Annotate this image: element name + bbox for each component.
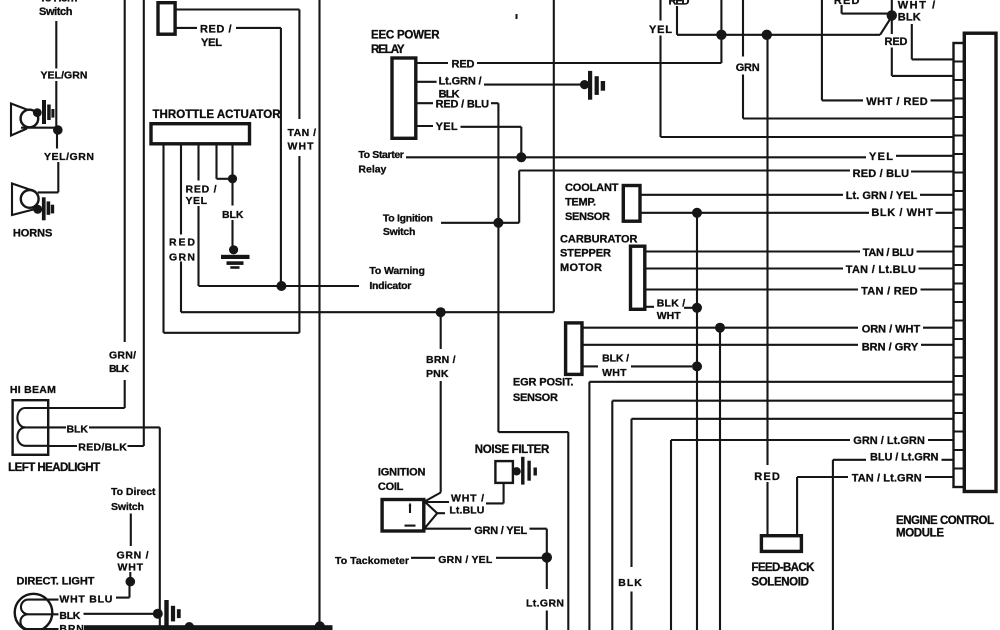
junction: relay YEL joins starter wire — [516, 152, 526, 162]
svg-text:Relay: Relay — [358, 163, 386, 175]
wire: To Starter Relay to ECM YEL pin — [406, 156, 954, 158]
wire: stepper lead 3 to ECM TAN/RED — [645, 288, 954, 290]
label: To Starter Relay — [358, 149, 404, 175]
wire: direct light BLK to ground — [84, 613, 154, 615]
wire: EGR lead 2 to ECM BRN/GRY — [582, 344, 954, 346]
svg-text:Switch: Switch — [111, 501, 144, 513]
junction: RED bus node 2 (solenoid feed) — [762, 30, 772, 40]
svg-text:LEFT HEADLIGHT: LEFT HEADLIGHT — [8, 462, 100, 474]
svg-text:YEL: YEL — [869, 151, 893, 163]
wire: stepper lead 1 to ECM TAN/BLU — [645, 250, 954, 252]
label: EEC POWER RELAY — [371, 29, 440, 56]
svg-text:BRN / GRY: BRN / GRY — [862, 342, 919, 354]
svg-text:WHT / RED: WHT / RED — [866, 96, 928, 108]
wire: actuator pin3 RED/YEL (down, right to warning indicator) — [199, 144, 360, 286]
wire: relay RED/BLU lead (down x=498.4, right, down x=568.3 to bottom) — [416, 103, 569, 630]
label: WHT / BLK — [898, 0, 936, 24]
wire: WHT/BLK lead to ECM pin 1 — [912, 24, 954, 59]
wire: relay YEL lead (down to starter wire) — [416, 126, 522, 155]
wire: RED feed to feedback solenoid (x=767.5) — [766, 35, 768, 536]
svg-text:Switch: Switch — [383, 226, 416, 238]
component: feed-back solenoid body — [761, 536, 801, 552]
wire: TAN/Lt.GRN from ECM down x=797.1 to solenoid — [797, 477, 953, 536]
left headlight symbol — [13, 400, 66, 455]
component: ignition coil body — [382, 500, 424, 532]
label: COOLANT TEMP. SENSOR — [565, 182, 619, 223]
ground: relay ground (dot + bars) — [580, 71, 605, 100]
wire: HI BEAM feed vertical GRN/BLK (x=124.7) — [48, 0, 125, 408]
svg-text:BLK / WHT: BLK / WHT — [871, 207, 933, 219]
wire: relay RED lead (right to top node) — [416, 35, 722, 63]
wire: headlight BLK to ground (x=159.8) — [89, 427, 160, 626]
label: TAN / WHT — [288, 127, 317, 153]
svg-text:COOLANT: COOLANT — [565, 182, 619, 194]
wire: BRN/PNK drop to ignition coil — [426, 312, 441, 501]
label: BLK / WHT (stepper) — [657, 297, 686, 321]
svg-text:BLK: BLK — [618, 577, 642, 589]
svg-text:YEL/GRN: YEL/GRN — [44, 151, 94, 163]
label: RED / YEL (top box) — [200, 23, 232, 49]
svg-text:Lt.GRN: Lt.GRN — [526, 598, 564, 610]
wire: stepper lead 2 to ECM TAN/Lt.BLU — [645, 267, 954, 269]
ground: direct light ground (dot + bars) — [153, 600, 181, 627]
label: To Ignition Switch — [383, 212, 433, 238]
wire: RED bus to solenoid tap — [721, 34, 766, 36]
svg-text:RED /: RED / — [200, 23, 232, 35]
svg-text:PNK: PNK — [426, 368, 449, 380]
svg-text:BLK: BLK — [222, 209, 244, 221]
label: To Warning Indicator — [369, 265, 425, 292]
svg-text:GRN / YEL: GRN / YEL — [474, 525, 527, 537]
svg-text:GRN: GRN — [169, 251, 195, 263]
wire: RED lead from node to ECM pin 2 — [892, 15, 954, 76]
wire: RED bus to diagonal and WHT/BLK node — [767, 17, 892, 35]
svg-text:GRN: GRN — [736, 62, 760, 74]
svg-text:GRN / Lt.GRN: GRN / Lt.GRN — [853, 435, 925, 447]
svg-text:ORN / WHT: ORN / WHT — [862, 323, 921, 335]
wire: EGR lead 1 to ECM ORN/WHT — [582, 327, 954, 329]
svg-text:TAN / Lt.GRN: TAN / Lt.GRN — [852, 473, 922, 485]
svg-text:TAN / Lt.BLU: TAN / Lt.BLU — [846, 264, 916, 276]
svg-text:RED: RED — [169, 237, 195, 249]
svg-text:To Tackometer: To Tackometer — [335, 555, 409, 567]
svg-text:YEL/GRN: YEL/GRN — [41, 70, 88, 82]
label: WHT / Lt.BLU — [449, 492, 484, 516]
label: EGR POSIT. SENSOR — [513, 377, 574, 405]
svg-text:WHT: WHT — [657, 310, 682, 322]
svg-text:MOTOR: MOTOR — [560, 262, 602, 274]
noise filter capacitor bars — [512, 457, 537, 485]
wire: actuator pin4 (jog to pin5) — [217, 144, 233, 179]
svg-text:WHT /: WHT / — [451, 492, 484, 504]
svg-text:CARBURATOR: CARBURATOR — [560, 233, 638, 245]
label: IGNITION COIL — [378, 466, 426, 493]
coil tower chevron — [425, 502, 446, 529]
label: RED / YEL (pin3) — [186, 183, 217, 207]
wire: horn switch feed vertical YEL/GRN — [56, 21, 58, 192]
component: engine control module body — [964, 33, 996, 491]
wire: RED/YEL riser x=553.8 (top edge to pin2 wire) — [553, 0, 555, 312]
svg-text:RED: RED — [885, 36, 908, 48]
wire: RED drop from top label to bus node — [677, 6, 721, 35]
ground: throttle actuator earth ground — [221, 245, 250, 269]
component: noise filter box — [495, 461, 513, 483]
svg-text:Lt.BLU: Lt.BLU — [449, 504, 484, 516]
junction: coolant lead joins BLK/WHT net — [692, 208, 702, 218]
wire: coil GRN/YEL lead down to tack node — [424, 529, 547, 553]
junction: GRN/WHT node dot — [126, 577, 136, 587]
wire: top right RED lead into node — [842, 5, 888, 14]
svg-text:BLK /: BLK / — [657, 297, 686, 309]
component: ECM pin ladder — [954, 43, 965, 487]
bottom connector bar (cut at bottom edge) — [84, 625, 333, 630]
wire: long vertical x=319.5 (top edge to bottom bar) — [318, 0, 320, 625]
svg-text:WHT: WHT — [288, 141, 315, 153]
svg-text:EEC POWER: EEC POWER — [371, 29, 440, 41]
svg-text:HI BEAM: HI BEAM — [10, 384, 56, 396]
component: throttle actuator body — [151, 124, 250, 144]
wire: top box upper lead to x=299 vertical (TAN/WHT net) — [175, 10, 299, 333]
svg-text:To Horn: To Horn — [40, 0, 78, 4]
wire: GRN/Lt.GRN from ECM down x=671 to bottom — [671, 440, 954, 630]
wire: GRN riser from top edge to ECM (x=743) — [743, 0, 954, 119]
svg-text:WHT: WHT — [602, 367, 627, 379]
label: BRN / PNK — [426, 354, 456, 380]
junction: BRN/PNK tap on pin2 wire — [436, 307, 446, 317]
junction: GRN/YEL tack node — [542, 552, 552, 562]
svg-text:RED: RED — [834, 0, 860, 7]
svg-text:RED: RED — [754, 471, 780, 483]
svg-text:TEMP.: TEMP. — [565, 197, 596, 209]
svg-text:EGR POSIT.: EGR POSIT. — [513, 377, 574, 389]
svg-text:Switch: Switch — [39, 6, 73, 18]
svg-text:RED/BLK: RED/BLK — [78, 441, 127, 453]
wire: Lt.GRN drop to bottom edge — [546, 562, 548, 630]
svg-text:Lt. GRN / YEL: Lt. GRN / YEL — [846, 190, 918, 202]
svg-text:GRN/: GRN/ — [109, 350, 136, 362]
svg-text:TAN /: TAN / — [288, 127, 317, 139]
label: GRN / WHT — [117, 549, 149, 573]
wire: RED/BLK feed vertical (x=143.8) — [48, 0, 144, 446]
svg-text:WHT /: WHT / — [898, 0, 936, 12]
junction: stepper joins BLK/WHT net — [692, 303, 702, 313]
svg-text:RED / BLU: RED / BLU — [853, 168, 910, 180]
label: FEED-BACK SOLENOID — [751, 562, 815, 588]
svg-text:Lt.GRN /: Lt.GRN / — [439, 76, 482, 88]
wire: stepper lead 4 BLK/WHT to net — [645, 307, 693, 308]
component: EEC power relay body — [392, 58, 416, 138]
svg-text:YEL: YEL — [649, 24, 672, 36]
wire: YEL riser from top edge to ECM (x=660.5) — [661, 0, 954, 137]
svg-text:GRN / YEL: GRN / YEL — [438, 554, 493, 566]
wire: ECM lead at y=381.8 down x=589.4 to bottom — [589, 382, 953, 630]
wire: ORN/WHT net vertical x=718 to bottom edge — [719, 328, 721, 630]
svg-text:To Starter: To Starter — [358, 149, 404, 161]
wire: direct switch lead GRN/WHT — [116, 514, 131, 598]
label: BLK / WHT (EGR) — [602, 353, 629, 379]
svg-text:RED / BLU: RED / BLU — [436, 98, 490, 110]
direct light lamp symbol — [15, 594, 59, 630]
junction: WHT/BLK node — [887, 10, 897, 20]
svg-text:To Ignition: To Ignition — [383, 212, 433, 224]
svg-text:COIL: COIL — [378, 481, 404, 493]
wire: top feed at x=721.4 — [720, 0, 722, 35]
svg-text:NOISE FILTER: NOISE FILTER — [475, 444, 550, 456]
junction: BRN joins bottom bar — [185, 622, 194, 630]
svg-text:YEL: YEL — [201, 37, 222, 49]
wire: top box lower lead RED/YEL down to warning node — [175, 28, 281, 283]
svg-text:DIRECT. LIGHT: DIRECT. LIGHT — [17, 576, 95, 588]
horn 1 (upper horn symbol) — [11, 100, 58, 136]
svg-text:BLK: BLK — [67, 423, 89, 435]
svg-text:IGNITION: IGNITION — [378, 466, 426, 478]
svg-text:BLK: BLK — [109, 363, 129, 375]
label: To Horn Switch (cut at top) — [39, 0, 78, 18]
svg-text:ENGINE CONTROL: ENGINE CONTROL — [896, 515, 994, 527]
wire: actuator pin2 RED GRN (down, right to x=553.8) — [181, 144, 554, 312]
wire: noise filter lead WHT/Lt.BLU to coil — [424, 483, 504, 504]
component: EGR position sensor body — [566, 323, 582, 375]
svg-text:TAN / RED: TAN / RED — [861, 286, 918, 298]
svg-text:WHT BLU: WHT BLU — [59, 593, 112, 605]
label: Lt.GRN / BLK — [439, 76, 482, 101]
wire: WHT/RED riser from top edge to ECM pin 3 — [822, 0, 954, 100]
junction: RED/YEL joins warning wire — [276, 281, 286, 291]
junction: horn1 to feed wire — [53, 125, 63, 135]
component: coolant temp sensor body — [623, 186, 640, 222]
label: RED GRN — [169, 237, 195, 264]
svg-text:RELAY: RELAY — [371, 44, 405, 56]
svg-text:BLK: BLK — [59, 610, 80, 622]
svg-text:GRN /: GRN / — [117, 549, 149, 561]
component: small connector box at top (RED/YEL source) — [158, 3, 175, 35]
label: CARBURATOR STEPPER MOTOR — [560, 233, 638, 274]
junction: RED bus node 1 — [716, 30, 726, 40]
wire: vertical above WHT/BLK node to top edge — [891, 0, 893, 15]
wire: tackometer lead GRN / YEL — [411, 557, 543, 559]
svg-text:STEPPER: STEPPER — [560, 248, 611, 260]
component: carburator stepper motor body — [631, 246, 645, 309]
wire: BLK/WHT net vertical x=697 to bottom edge — [696, 213, 698, 630]
scan speck — [516, 14, 518, 19]
wire: BLU/Lt.GRN from ECM down x=832.9 to bottom — [833, 460, 954, 630]
svg-text:BRN /: BRN / — [426, 354, 456, 366]
wire: ECM lead at y=418.8 down x=631.5 (BLK) to bottom — [632, 419, 954, 630]
svg-text:BLK: BLK — [898, 12, 921, 24]
svg-text:WHT: WHT — [118, 561, 144, 573]
svg-text:THROTTLE ACTUATOR: THROTTLE ACTUATOR — [153, 109, 282, 121]
junction: ignition wire joins RED/BLU vertical — [493, 218, 503, 228]
horn 2 (lower horn symbol) — [12, 184, 58, 221]
svg-text:To Direct: To Direct — [111, 486, 156, 498]
wire: actuator pin1 (to x=299 up to top box) — [164, 144, 300, 333]
svg-text:To Warning: To Warning — [369, 265, 425, 277]
junction: long vertical joins bottom bar — [315, 621, 325, 630]
label: GRN/ BLK — [109, 350, 136, 376]
wire: coolant sensor lead 1 to ECM Lt.GRN/YEL — [640, 194, 954, 196]
label: To Direct Switch — [111, 486, 156, 513]
svg-text:TAN / BLU: TAN / BLU — [863, 247, 914, 259]
junction: ORN/WHT tap — [715, 323, 725, 333]
svg-text:BRN: BRN — [59, 623, 84, 630]
svg-text:RED: RED — [669, 0, 690, 8]
svg-text:SOLENOID: SOLENOID — [751, 577, 809, 589]
wire: To Ignition Switch to ECM RED/BLU pin — [441, 171, 954, 223]
svg-text:HORNS: HORNS — [13, 228, 53, 240]
wire: relay Lt.GRN/BLK lead to ground — [416, 82, 582, 85]
svg-text:FEED-BACK: FEED-BACK — [751, 562, 815, 574]
svg-text:RED: RED — [452, 59, 475, 71]
svg-text:BLK /: BLK / — [602, 353, 629, 365]
label: ENGINE CONTROL MODULE — [896, 515, 994, 540]
svg-text:Indicator: Indicator — [369, 280, 411, 292]
junction: pin4 joins pin5 — [228, 174, 237, 183]
svg-text:YEL: YEL — [436, 121, 458, 133]
svg-text:YEL: YEL — [186, 195, 208, 207]
svg-text:BLU / Lt.GRN: BLU / Lt.GRN — [870, 452, 939, 464]
wire: ECM lead at y=400.7 down x=612.3 to bottom — [612, 401, 953, 630]
wire: coolant sensor lead 2 to ECM BLK/WHT — [640, 212, 954, 214]
junction: EGR joins BLK/WHT net — [692, 361, 702, 371]
svg-text:SENSOR: SENSOR — [513, 392, 558, 404]
svg-text:RED /: RED / — [186, 183, 217, 195]
wire: BRN to bottom bar — [84, 627, 186, 629]
svg-text:MODULE: MODULE — [896, 528, 944, 540]
svg-text:SENSOR: SENSOR — [565, 211, 610, 223]
wire: actuator pin5 BLK to ground — [231, 144, 233, 246]
wire: EGR lead 3 BLK/WHT to net — [582, 365, 692, 367]
